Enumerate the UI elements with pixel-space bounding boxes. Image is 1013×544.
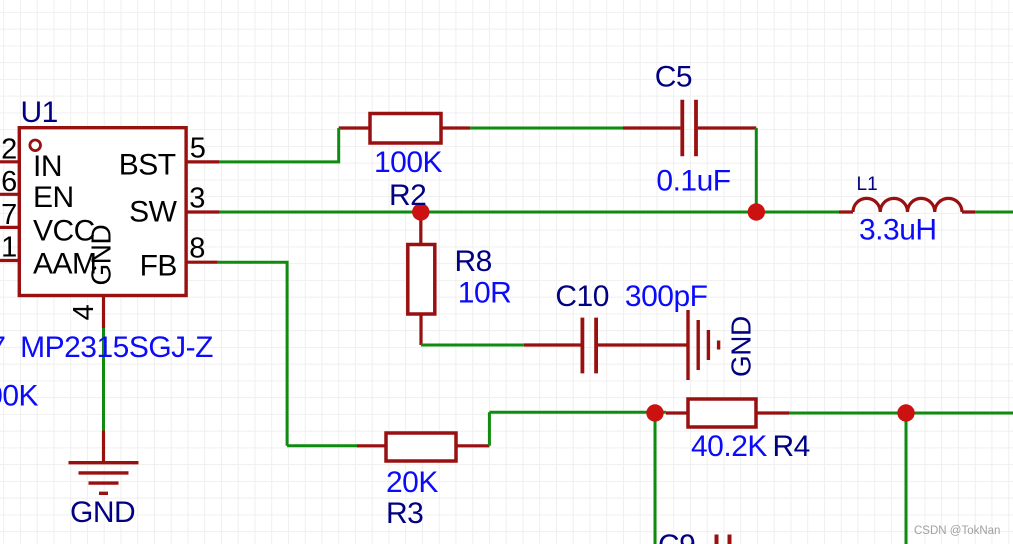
- svg-text:GND: GND: [70, 496, 135, 529]
- svg-text:6: 6: [1, 166, 17, 198]
- svg-text:U1: U1: [21, 96, 58, 129]
- svg-text:100K: 100K: [374, 146, 443, 179]
- svg-text:C9: C9: [658, 529, 695, 544]
- svg-text:R4: R4: [773, 430, 810, 463]
- svg-text:BST: BST: [119, 149, 176, 182]
- svg-text:3.3uH: 3.3uH: [859, 213, 937, 246]
- svg-text:R8: R8: [455, 245, 492, 278]
- svg-text:0.1uF: 0.1uF: [656, 165, 730, 198]
- svg-text:R2: R2: [389, 179, 426, 212]
- svg-text:300pF: 300pF: [625, 280, 708, 313]
- svg-text:MP2315SGJ-Z: MP2315SGJ-Z: [20, 331, 213, 364]
- svg-text:CSDN @TokNan: CSDN @TokNan: [914, 525, 1000, 537]
- svg-text:L1: L1: [857, 174, 878, 195]
- svg-text:100K: 100K: [0, 380, 39, 413]
- svg-text:FB: FB: [140, 250, 177, 283]
- svg-text:7: 7: [0, 331, 5, 364]
- svg-text:5: 5: [190, 132, 206, 164]
- svg-text:C5: C5: [655, 60, 692, 93]
- svg-text:R3: R3: [386, 497, 423, 530]
- svg-text:GND: GND: [725, 316, 756, 377]
- svg-text:IN: IN: [33, 150, 62, 183]
- svg-text:7: 7: [1, 199, 17, 231]
- svg-text:20K: 20K: [386, 466, 438, 499]
- svg-text:EN: EN: [33, 181, 74, 214]
- svg-text:SW: SW: [129, 196, 178, 229]
- svg-text:C10: C10: [555, 280, 609, 313]
- svg-text:GND: GND: [86, 225, 117, 286]
- svg-text:2: 2: [1, 133, 17, 165]
- svg-text:1: 1: [1, 232, 17, 264]
- svg-text:3: 3: [189, 183, 205, 215]
- svg-text:8: 8: [189, 233, 205, 265]
- svg-text:40.2K: 40.2K: [691, 430, 767, 463]
- svg-text:4: 4: [68, 304, 100, 320]
- svg-text:10R: 10R: [458, 277, 512, 310]
